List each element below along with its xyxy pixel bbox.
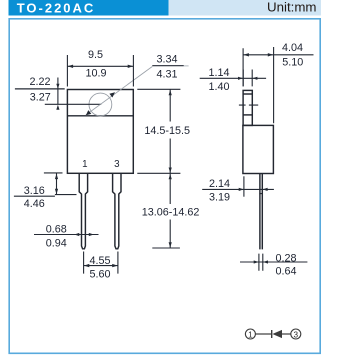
dim 9.5/10.9 extension lines: [67, 55, 133, 87]
side view hole top edge: [243, 93, 252, 95]
dim 2.22/3.27 vertical line: [57, 78, 59, 105]
svg-text:3: 3: [294, 330, 299, 339]
side view hole bottom edge: [243, 114, 252, 116]
dim 3.34/4.31 fraction line: [152, 65, 184, 67]
dim 3.27 arrow lower: [56, 105, 59, 110]
dim arrows 1.14/1.40: [238, 77, 257, 80]
header dark blue title bar: [9, 0, 169, 16]
svg-text:2.14: 2.14: [209, 178, 230, 190]
lead 3 outline: [113, 173, 121, 249]
leader arrow lower: [86, 110, 91, 115]
dim arrows 4.04/5.10: [243, 53, 273, 56]
svg-text:0.94: 0.94: [46, 237, 67, 249]
leader arrow upper: [109, 92, 115, 97]
dim 4.55/5.60 extension lines: [84, 252, 118, 274]
dim 3.16/4.46 left body-bottom extension: [44, 172, 63, 174]
wire pin1 to diode: [256, 333, 272, 335]
dim arrows 13.06-14.62: [169, 174, 172, 248]
tab separation line: [67, 115, 133, 117]
lead 1 outline: [79, 173, 87, 249]
dim 3.16/4.46 vertical line: [56, 173, 58, 194]
dim 3.16 fraction line: [14, 195, 55, 197]
dim arrows 2.14/3.19: [239, 188, 268, 191]
svg-text:TO-220AC: TO-220AC: [17, 0, 96, 15]
wire diode to pin3: [282, 333, 291, 335]
dim 13.06-14.62 vertical line: [169, 174, 171, 248]
pin 3 terminal circle: [291, 329, 301, 339]
svg-text:1.40: 1.40: [208, 81, 229, 93]
dim 14.5-15.5 top extension: [137, 88, 180, 90]
dim 2.22/3.27 line upper: [15, 88, 65, 90]
diode cathode bar: [271, 330, 273, 338]
svg-text:3.19: 3.19: [209, 191, 230, 203]
svg-text:4.31: 4.31: [156, 69, 177, 81]
dim 0.68/0.94 dimension line: [34, 234, 99, 236]
svg-text:4.55: 4.55: [89, 255, 110, 267]
pin 1 terminal circle: [245, 329, 255, 339]
dim 9.5/10.9 dimension line: [67, 65, 133, 67]
svg-text:3.34: 3.34: [156, 54, 177, 66]
dim 0.28/0.64 extension lines: [259, 254, 263, 271]
svg-text:14.5-15.5: 14.5-15.5: [144, 125, 190, 137]
header light blue strip: [169, 0, 322, 16]
svg-text:1: 1: [82, 159, 87, 170]
side view tab: [243, 90, 252, 125]
hole center line: [45, 103, 101, 105]
dim arrows 4.55/5.60: [84, 264, 118, 267]
mounting hole circle: [89, 93, 112, 116]
dim arrows 3.16/4.46: [55, 174, 58, 195]
svg-text:3.16: 3.16: [24, 185, 45, 197]
svg-text:3: 3: [114, 159, 120, 170]
dim 2.14/3.19 extension line: [243, 176, 245, 196]
dim arrows 9.5: [68, 65, 134, 68]
dim arrows 14.5-15.5: [169, 90, 172, 173]
dim 14.5-15.5 bottom extension: [137, 172, 180, 174]
dim 3.34 fraction line gray tail: [184, 65, 189, 67]
side view hole center line: [239, 104, 258, 106]
side view body: [243, 125, 274, 173]
svg-text:0.28: 0.28: [275, 252, 296, 264]
dim 13.06-14.62 bottom extension: [152, 247, 180, 249]
svg-text:0.68: 0.68: [46, 224, 67, 236]
dim arrows 0.68/0.94: [74, 233, 94, 236]
svg-text:5.60: 5.60: [89, 269, 110, 281]
dim 0.28/0.64 dimension line: [240, 261, 307, 263]
svg-text:10.9: 10.9: [85, 68, 106, 80]
side view lead step tick: [259, 193, 262, 195]
dim 2.14/3.19 dimension line: [202, 188, 274, 190]
svg-text:13.06-14.62: 13.06-14.62: [142, 207, 200, 219]
svg-text:4.04: 4.04: [282, 42, 303, 54]
side view lead: [260, 174, 262, 250]
svg-text:1.14: 1.14: [208, 67, 229, 79]
svg-text:0.64: 0.64: [275, 266, 296, 278]
svg-text:5.10: 5.10: [282, 57, 303, 69]
hole diameter leader diagonal: [86, 67, 153, 116]
diode triangle: [272, 330, 282, 338]
dim 14.5-15.5 vertical line: [169, 90, 171, 174]
dim 4.04/5.10 extension lines: [243, 47, 274, 123]
dim 3.16/4.46 shoulder extension: [55, 194, 77, 196]
dim 4.55/5.60 dimension line: [84, 265, 118, 267]
dim 1.14/1.40 extension lines: [243, 70, 252, 87]
dim 2.22 arrow upper: [56, 84, 59, 89]
svg-text:9.5: 9.5: [88, 49, 103, 61]
svg-text:1: 1: [248, 330, 253, 339]
svg-text:2.22: 2.22: [29, 76, 50, 88]
dim 1.14/1.40 dimension line: [200, 77, 266, 79]
front view body outline: [67, 90, 133, 174]
dim arrows 0.28/0.64: [254, 260, 268, 263]
svg-text:Unit:mm: Unit:mm: [267, 0, 317, 14]
svg-text:4.46: 4.46: [24, 198, 45, 210]
svg-text:3.27: 3.27: [30, 92, 51, 104]
dim 4.04/5.10 dimension line: [243, 54, 313, 56]
